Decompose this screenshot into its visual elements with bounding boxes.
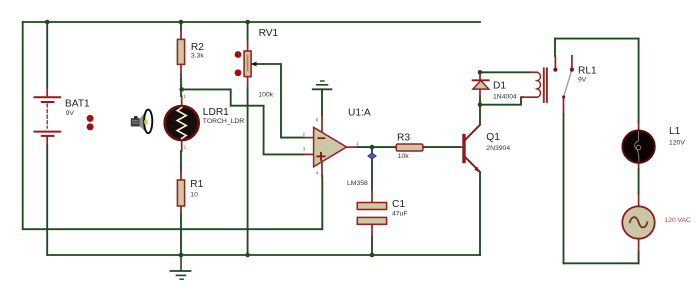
svg-text:100k: 100k bbox=[258, 91, 273, 98]
svg-text:R3: R3 bbox=[397, 133, 410, 144]
svg-text:120 VAC: 120 VAC bbox=[665, 217, 691, 224]
svg-text:TORCH_LDR: TORCH_LDR bbox=[203, 118, 245, 125]
svg-text:2N3904: 2N3904 bbox=[486, 145, 510, 152]
svg-text:120V: 120V bbox=[669, 140, 685, 147]
svg-text:D1: D1 bbox=[493, 81, 506, 92]
svg-text:LDR1: LDR1 bbox=[203, 107, 229, 118]
svg-text:RL1: RL1 bbox=[578, 66, 597, 77]
svg-text:Q1: Q1 bbox=[486, 132, 500, 143]
svg-text:RV1: RV1 bbox=[259, 28, 279, 39]
svg-text:3.3k: 3.3k bbox=[191, 52, 204, 59]
svg-text:LM358: LM358 bbox=[347, 180, 368, 187]
svg-text:BAT1: BAT1 bbox=[65, 99, 90, 110]
svg-text:47uF: 47uF bbox=[392, 211, 408, 218]
svg-text:9V: 9V bbox=[578, 77, 587, 84]
svg-text:10: 10 bbox=[190, 192, 198, 199]
svg-text:U1:A: U1:A bbox=[348, 107, 371, 118]
svg-text:9V: 9V bbox=[66, 110, 75, 117]
svg-text:L1: L1 bbox=[669, 126, 681, 137]
svg-text:C1: C1 bbox=[392, 199, 405, 210]
svg-text:R1: R1 bbox=[190, 179, 203, 190]
svg-text:1N4004: 1N4004 bbox=[493, 93, 517, 100]
svg-text:10k: 10k bbox=[398, 153, 410, 160]
